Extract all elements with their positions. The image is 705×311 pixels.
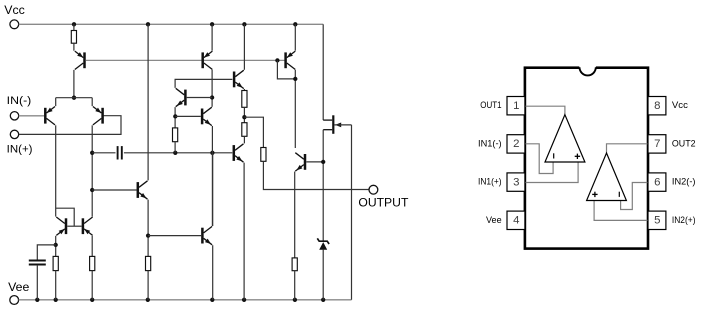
pin 7 box xyxy=(648,135,666,153)
node Q2 collector / Q10 base xyxy=(90,188,94,192)
node diff tail xyxy=(72,96,76,100)
node Q10 emitter / Q11 base xyxy=(146,233,150,237)
node Vee-Q9 emitter xyxy=(242,298,246,302)
resistor R1 xyxy=(71,31,76,44)
wire Q3 collector to tail node xyxy=(73,70,75,98)
svg-text:3: 3 xyxy=(513,176,519,188)
transistor Q3 xyxy=(83,52,86,68)
transistor Q12 xyxy=(304,154,307,170)
svg-text:IN2(+): IN2(+) xyxy=(672,215,696,226)
node Vcc-R1 xyxy=(72,22,76,26)
node J1 source / Q12 base xyxy=(321,160,325,164)
transistor Q14 xyxy=(82,218,85,234)
wire Q1 emitter drop xyxy=(55,98,57,106)
wire pin3 to A1 non-inverting input xyxy=(525,162,578,183)
wire J1 source stub xyxy=(323,129,332,131)
node Q13 emitter / C2 xyxy=(54,243,58,247)
pin 3 box xyxy=(507,173,525,191)
wire Q5 collector down xyxy=(294,70,296,148)
svg-text:IN(+): IN(+) xyxy=(7,144,33,156)
svg-text:8: 8 xyxy=(654,100,660,112)
wire R6 to Vee xyxy=(55,271,57,300)
pin 4 box xyxy=(507,211,525,229)
JFET J1 channel bar xyxy=(332,115,334,134)
node Q5 collector tie xyxy=(293,77,297,81)
svg-text:Vee: Vee xyxy=(486,215,502,226)
wire Q2 collector down to Q14 xyxy=(91,125,93,216)
node Vee-R6 xyxy=(54,298,58,302)
pin 6 box xyxy=(648,173,666,191)
svg-text:IN2(-): IN2(-) xyxy=(672,177,696,188)
pin 8 box xyxy=(648,97,666,115)
wire R3 bottom to Q9 collector xyxy=(243,136,245,143)
resistor R4 xyxy=(261,148,266,162)
resistor R8 xyxy=(146,256,151,270)
wire Q9 emitter to Vee xyxy=(243,163,245,300)
wire Q5 diode tie xyxy=(277,60,295,79)
wire R4 to OUTPUT xyxy=(263,161,369,189)
node Vee-D1 anode xyxy=(321,298,325,302)
package notch xyxy=(579,66,596,69)
node C1-Q7 emitter xyxy=(210,151,214,155)
pin 1 box xyxy=(507,97,525,115)
wire Q4 emitter to Vcc xyxy=(211,24,213,50)
transistor Q5 xyxy=(284,52,287,68)
svg-text:OUT1: OUT1 xyxy=(480,100,501,111)
wire Q12 base to J1 source line xyxy=(306,161,323,163)
wire Q6 collector up and to Q8 base xyxy=(175,79,232,88)
wire pin1 to A1 output xyxy=(525,106,565,115)
svg-text:OUTPUT: OUTPUT xyxy=(358,196,408,210)
wire Q14 emitter down xyxy=(91,236,93,257)
node R2-R3 tap xyxy=(242,115,246,119)
wire Q11 base xyxy=(148,235,201,237)
node C1-R5 xyxy=(173,151,177,155)
wire Q8 emitter to R2 xyxy=(243,89,245,91)
transistor Q7 xyxy=(201,109,204,125)
wire Vcc rail xyxy=(19,23,324,25)
capacitor C1 xyxy=(117,146,119,159)
node Vcc-Q4 emitter xyxy=(210,22,214,26)
transistor Q1 xyxy=(44,108,47,124)
wire Q10 collector up to Vcc xyxy=(147,24,149,180)
IN(-) terminal xyxy=(10,112,18,120)
transistor Q6 xyxy=(184,90,187,106)
wire Q3 base rail to Q4/Q5 xyxy=(86,59,285,61)
wire R5 bottom to C1 line xyxy=(174,142,176,153)
IN(+) terminal xyxy=(10,130,18,138)
svg-text:Vcc: Vcc xyxy=(4,3,25,17)
op-amp A1 xyxy=(545,115,585,162)
wire R7 to Vee xyxy=(91,271,93,300)
wire mirror base tie xyxy=(67,225,81,227)
wire Q6 base xyxy=(187,97,212,99)
transistor Q9 xyxy=(233,145,236,161)
wire J1 drain stub xyxy=(323,119,332,121)
transistor Q13 xyxy=(65,218,68,234)
resistor R9 xyxy=(292,258,297,271)
wire Q11 emitter to Vee xyxy=(212,245,214,300)
svg-text:5: 5 xyxy=(654,215,660,227)
wire Q1 collector down to Q13 xyxy=(55,125,57,216)
svg-text:2: 2 xyxy=(513,138,519,150)
wire C2 branch xyxy=(37,245,55,260)
J1 gate arrow xyxy=(335,123,341,128)
pin 2 box xyxy=(507,135,525,153)
A1 non-inverting sign xyxy=(575,155,580,157)
node Q6 emitter / Q7 base xyxy=(173,114,177,118)
A2 inverting sign xyxy=(618,192,620,197)
wire Q10 emitter down xyxy=(147,200,149,257)
wire R1 bottom to Q3 emitter xyxy=(73,43,75,51)
transistor Q8 xyxy=(233,72,236,88)
node Vee-R7 xyxy=(90,298,94,302)
node Q5 base-collector tie xyxy=(275,58,279,62)
wire mirror diode tie xyxy=(56,208,74,226)
wire R1 top to Vcc xyxy=(73,24,75,30)
wire diff emitters xyxy=(56,97,92,99)
Vee terminal xyxy=(10,296,19,305)
wire tap to R4 xyxy=(244,117,263,147)
transistor Q10 xyxy=(137,182,140,198)
svg-text:OUT2: OUT2 xyxy=(672,138,696,149)
wire Q13 emitter down xyxy=(55,236,57,257)
DIP-8 package body xyxy=(525,68,648,249)
node Vcc-Q8 collector xyxy=(242,22,246,26)
svg-text:IN1(+): IN1(+) xyxy=(478,177,502,188)
node Vee-C2 xyxy=(35,298,39,302)
resistor R6 xyxy=(53,256,58,270)
zener diode D1 xyxy=(319,242,327,250)
wire Vee rail rise to J1 gate xyxy=(351,125,353,300)
wire Q12 emitter down xyxy=(294,172,296,258)
wire Q5 emitter to Vcc xyxy=(294,24,296,50)
Vcc terminal xyxy=(10,20,19,29)
wire J1 source down xyxy=(322,130,324,241)
wire Vee rail xyxy=(19,299,352,301)
node Vcc-Q5 emitter xyxy=(293,22,297,26)
svg-text:Vee: Vee xyxy=(8,280,29,294)
wire J1 gate xyxy=(334,124,351,126)
wire R8 to Vee xyxy=(147,271,149,300)
svg-text:IN1(-): IN1(-) xyxy=(478,138,502,149)
wire Q7 emitter down xyxy=(211,126,213,226)
wire Q4 collector down xyxy=(211,70,213,107)
A1 inverting sign xyxy=(553,153,555,158)
wire pin6 to A2 inverting input xyxy=(621,183,648,210)
transistor Q4 xyxy=(201,52,204,68)
node Q4 collector / Q6 base xyxy=(210,95,214,99)
svg-text:Vcc: Vcc xyxy=(672,100,688,111)
capacitor C2 xyxy=(29,260,46,262)
wire Q2 emitter drop xyxy=(91,98,93,106)
wire D1 to Vee xyxy=(322,250,324,300)
wire IN(+) to Q2 base xyxy=(19,116,121,135)
wire Q6 emitter down xyxy=(174,107,176,128)
resistor R3 xyxy=(242,123,247,137)
svg-text:1: 1 xyxy=(513,100,519,112)
wire C2 to Vee xyxy=(36,265,38,300)
wire R9 to Vee xyxy=(294,271,296,300)
wire C1 left xyxy=(92,152,115,154)
resistor R7 xyxy=(90,256,95,270)
wire Q11 collector up xyxy=(212,153,214,226)
transistor Q11 xyxy=(201,228,204,244)
node Vee-R8 xyxy=(146,298,150,302)
wire R2 to R3 xyxy=(243,107,245,122)
node Vee-R9 xyxy=(293,298,297,302)
OUTPUT terminal xyxy=(369,185,378,194)
transistor Q2 xyxy=(101,108,104,124)
wire IN(-) to Q1 base xyxy=(19,115,44,117)
wire pin7 to A2 output xyxy=(607,144,649,153)
A2 non-inverting sign xyxy=(592,193,597,195)
wire C1 right to Q9 base xyxy=(124,152,232,154)
node Vcc-Q10 collector line xyxy=(146,22,150,26)
node Vee-Q11 emitter xyxy=(210,298,214,302)
resistor R5 xyxy=(173,128,178,142)
wire Q10 base xyxy=(92,189,136,191)
pin 5 box xyxy=(648,211,666,229)
svg-text:4: 4 xyxy=(513,215,519,227)
svg-text:IN(-): IN(-) xyxy=(7,95,32,107)
op-amp A2 xyxy=(587,153,627,201)
node Q2 collector / C1 xyxy=(90,151,94,155)
resistor R2 xyxy=(242,91,247,108)
wire Q7 base xyxy=(175,115,201,117)
wire Vcc rail drop to J1 drain xyxy=(322,24,324,120)
wire Q8 collector to Vcc xyxy=(243,24,245,70)
svg-text:7: 7 xyxy=(654,138,660,150)
wire pin2 to A1 inverting input xyxy=(525,144,553,174)
svg-text:6: 6 xyxy=(654,176,660,188)
wire pin5 to A2 non-inverting input xyxy=(594,201,648,221)
